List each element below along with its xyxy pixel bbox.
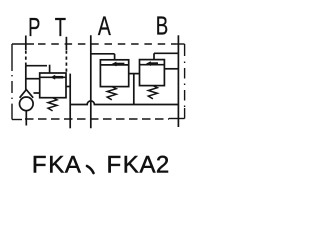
- svg-text:T: T: [55, 13, 67, 42]
- port P line: [25, 36, 27, 51]
- check valve seat: [20, 90, 34, 98]
- svg-text:B: B: [156, 10, 168, 40]
- relief valve V2 body: [100, 60, 128, 87]
- port B line: [177, 35, 179, 127]
- check valve ball: [20, 97, 34, 111]
- svg-text:A: A: [139, 152, 155, 179]
- svg-text:K: K: [123, 152, 139, 179]
- relief valve V2 seat line: [100, 64, 128, 66]
- enclosure border right: [184, 44, 186, 119]
- relief valve V3 body: [140, 60, 165, 86]
- svg-text:2: 2: [156, 152, 169, 179]
- enclosure border bottom: [12, 119, 185, 120]
- relief valve V1 seat line: [40, 76, 66, 78]
- relief valve V3 spring: [148, 86, 157, 99]
- wire bridge to tank bus: [133, 74, 135, 105]
- line P to relief valve V1 inlet: [26, 78, 40, 80]
- pilot line P to relief valve V1: [26, 65, 47, 67]
- port A line: [90, 35, 92, 128]
- svg-text:K: K: [48, 152, 64, 179]
- relief valve V1 body: [40, 73, 66, 98]
- svg-text:A: A: [98, 11, 111, 41]
- relief valve V2 flow arrow: [112, 62, 125, 67]
- enclosure border left: [11, 44, 13, 120]
- svg-text:A: A: [65, 152, 81, 179]
- caption FKA2: [106, 152, 169, 179]
- wire bridge between V2 and V3: [129, 73, 140, 75]
- caption ideographic comma: [87, 166, 94, 173]
- relief valve V3 seat line: [140, 64, 165, 66]
- wire relief valve V1 outlet to T line: [66, 86, 70, 88]
- wire T return line: [69, 74, 71, 129]
- relief valve V1 spring: [48, 98, 57, 111]
- wire check valve to bottom P port: [25, 111, 27, 126]
- wire tank bus: [70, 101, 178, 105]
- wire relief valve V3 outlet to B line: [164, 68, 178, 70]
- svg-text:P: P: [28, 13, 40, 42]
- wire B to relief valve V3 pilot: [154, 52, 178, 54]
- relief valve V3 flow arrow: [146, 61, 158, 66]
- wire check valve to relief valve V1: [34, 92, 40, 94]
- svg-text:F: F: [32, 152, 47, 179]
- wire A to relief valve V2 inlet: [91, 53, 115, 55]
- enclosure border top: [12, 43, 185, 45]
- relief valve V2 spring: [107, 87, 116, 100]
- svg-text:F: F: [106, 152, 121, 179]
- port T line: [65, 37, 67, 50]
- caption FKA: [32, 152, 81, 179]
- relief valve V1 flow arrow: [50, 75, 63, 80]
